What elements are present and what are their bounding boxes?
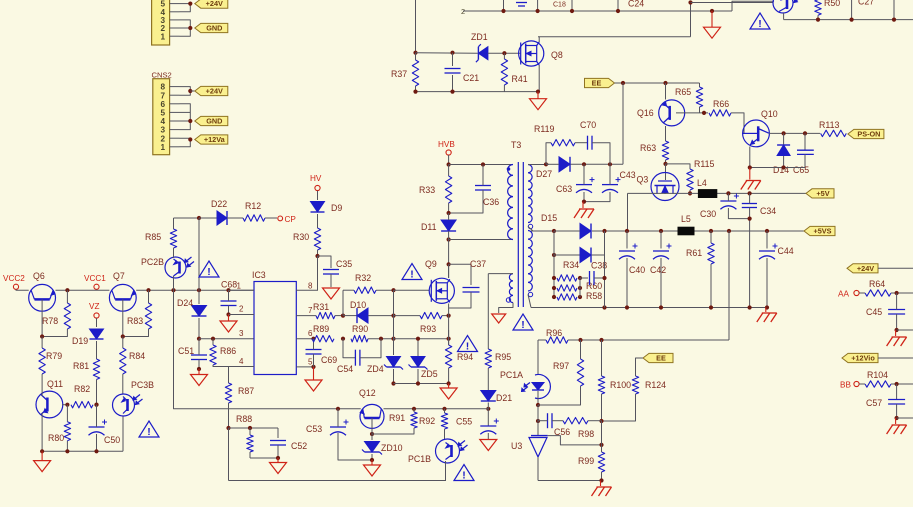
junction R97 top — [578, 338, 582, 342]
wire Q9 source to R93 — [448, 316, 450, 345]
label PC3B — [131, 380, 154, 390]
svg-text:D9: D9 — [331, 203, 342, 213]
svg-text:R50: R50 — [824, 0, 840, 8]
wire Q6 base down — [41, 311, 43, 337]
wire D19 to R81 — [96, 341, 98, 359]
label D11 — [421, 222, 437, 232]
wire R88 bottom row — [249, 452, 251, 458]
junction C21 bottom — [450, 90, 454, 94]
wire C57 stub 2 — [896, 404, 898, 418]
wire secondary top — [528, 164, 546, 166]
wire VCC1 stub — [96, 288, 98, 291]
zener ZD5 — [409, 357, 428, 370]
wire C30 top lead — [727, 193, 729, 201]
diode D14 — [777, 145, 790, 156]
label Q16 — [637, 108, 654, 118]
wire D11 top lead — [448, 213, 450, 220]
svg-text:PS-ON: PS-ON — [857, 130, 880, 139]
resistor R91 — [411, 409, 417, 428]
junction C42 top — [659, 229, 663, 233]
wire C35 down — [330, 274, 332, 287]
label C36 — [483, 197, 499, 207]
connector CNS1 pin 3 number — [160, 16, 165, 25]
svg-text:EE: EE — [656, 354, 666, 363]
svg-text:R98: R98 — [578, 429, 594, 439]
zener ZD4 — [384, 357, 403, 370]
wire Q10 collector — [769, 132, 820, 134]
wire ZD5 top — [417, 339, 419, 356]
svg-text:R89: R89 — [313, 324, 329, 334]
svg-text:C44: C44 — [778, 246, 794, 256]
svg-text:ZD4: ZD4 — [367, 364, 384, 374]
wire VCC2 — [16, 288, 29, 291]
wire R30 to pin8 — [317, 256, 319, 290]
junction D16 anode — [552, 253, 556, 257]
wire +24V right — [878, 267, 913, 269]
connector CNS1 pin 5 number — [160, 0, 165, 9]
connector CNS1 pin 4 number — [160, 8, 165, 17]
wire C40 up — [626, 231, 628, 249]
optocoupler PC2B — [165, 257, 194, 278]
label C38 — [591, 261, 607, 271]
label R92 — [419, 416, 435, 426]
pin number 2 — [239, 305, 244, 314]
junction Q3 gate node — [663, 162, 667, 166]
svg-text:R87: R87 — [238, 386, 254, 396]
resistor R98 — [563, 418, 588, 424]
label C42 — [650, 265, 666, 275]
junction R94 bottom — [447, 381, 451, 385]
capacitor C69 — [306, 350, 322, 355]
svg-text:D11: D11 — [421, 222, 437, 232]
junction R33/D11 — [447, 211, 451, 215]
svg-text:R104: R104 — [867, 370, 888, 380]
svg-text:R90: R90 — [352, 324, 368, 334]
svg-text:D14: D14 — [773, 165, 789, 175]
resistor R97 — [577, 359, 583, 386]
svg-text:8: 8 — [308, 282, 313, 291]
wire C56 lead left — [538, 420, 548, 422]
diode D9 — [311, 202, 325, 213]
label R97 — [553, 361, 569, 371]
polarity dot secondary tap — [528, 224, 532, 228]
svg-text:GND: GND — [206, 24, 222, 33]
ground C55 — [480, 440, 497, 451]
svg-text:R91: R91 — [389, 413, 405, 423]
wire D11 to primary bottom — [449, 239, 513, 241]
junction D22 anode row — [197, 216, 201, 220]
net flag EE — [585, 78, 615, 87]
ground pin2 — [220, 315, 237, 333]
label Q8 — [551, 50, 563, 60]
svg-text:C70: C70 — [580, 120, 596, 130]
junction rect node — [602, 229, 606, 233]
junction C45 bottom — [895, 328, 899, 332]
junction R50 — [816, 18, 820, 22]
net flag EE 2 — [643, 353, 673, 362]
connector CNS2 pin 1 number — [160, 143, 165, 152]
svg-text:D21: D21 — [496, 393, 512, 403]
junction top bus x503 — [501, 9, 505, 13]
transformer T3 secondary lower — [528, 231, 532, 292]
junction rail x767 — [765, 305, 769, 309]
wire D14 top lead — [783, 133, 785, 144]
svg-text:R92: R92 — [419, 416, 435, 426]
diode D27 — [559, 157, 570, 172]
wire D24 to pin3 — [198, 318, 200, 339]
resistor R58 — [557, 294, 577, 300]
wire Q12 base down — [371, 428, 373, 440]
wire PC3B emitter rail — [122, 416, 124, 451]
resistor R88 — [247, 428, 253, 452]
svg-text:R83: R83 — [127, 316, 143, 326]
optocoupler PC3B — [113, 394, 143, 416]
label Q6 — [33, 271, 45, 281]
svg-text:R100: R100 — [610, 380, 631, 390]
junction x394 pin7row — [391, 314, 395, 318]
wire R97 bottom — [538, 386, 581, 405]
wire R30 down — [317, 250, 319, 256]
pin number 5 — [308, 358, 313, 367]
label OCP — [285, 215, 297, 224]
junction x394 pin6row — [391, 337, 395, 341]
junction C21 top — [450, 51, 454, 55]
connector CNS2 pin 4 stub — [170, 120, 180, 122]
wire C69 down — [313, 354, 315, 367]
ground left rail — [34, 451, 51, 471]
capacitor C53 — [330, 420, 349, 436]
wire D10 to x394 — [368, 315, 394, 317]
wire R119 to C70 — [575, 142, 588, 144]
net flag +24V (CNS1) — [195, 0, 228, 8]
wire aux bottom to gnd — [499, 303, 513, 313]
label HVB — [438, 140, 455, 149]
wire C30 bottom — [728, 208, 749, 219]
label R96 — [546, 328, 562, 338]
svg-text:Q9: Q9 — [425, 259, 437, 269]
warning triangle near R94 — [458, 336, 478, 353]
wire stub up x618 — [617, 0, 619, 11]
wire zener rail — [394, 383, 449, 385]
svg-text:C36: C36 — [483, 197, 499, 207]
wire stub up x572 — [571, 0, 573, 11]
svg-text:D10: D10 — [350, 300, 366, 310]
ground top right — [704, 11, 721, 38]
net flag PS-ON — [848, 129, 884, 138]
wire stub up x537 — [537, 0, 539, 11]
svg-text:Q8: Q8 — [551, 50, 563, 60]
label Q11 — [47, 379, 63, 389]
capacitor C70 — [588, 136, 593, 150]
capacitor C42 — [653, 244, 672, 260]
capacitor C50 — [89, 420, 108, 436]
wire D10 lead — [343, 315, 357, 317]
wire PC2A emitter — [783, 13, 785, 20]
wire right stub — [893, 0, 895, 20]
connector CNS1 pin 3 stub — [170, 19, 180, 21]
label C65 — [793, 165, 809, 175]
resistor R50 — [815, 0, 821, 20]
junction C30/C34 bottom — [748, 217, 752, 221]
svg-text:R124: R124 — [645, 380, 666, 390]
label R37 — [391, 69, 407, 79]
label R60 — [586, 281, 602, 291]
ground Q8 source — [530, 92, 547, 110]
junction x894 — [892, 18, 896, 22]
capacitor C57 — [888, 400, 905, 405]
wire C34 top lead — [749, 193, 751, 203]
connector CNS2 pin 3 number — [160, 126, 165, 135]
label C51 — [178, 346, 194, 356]
wire R85 top row — [174, 217, 215, 219]
wire C45 stub 2 — [896, 314, 898, 330]
transistor Q10 — [743, 120, 770, 147]
junction gnd rail 2 — [65, 449, 69, 453]
wire Q9 source down — [448, 304, 450, 316]
junction bank TL — [552, 276, 556, 280]
junction Q9 gate node — [391, 288, 395, 292]
svg-text:!: ! — [466, 340, 470, 352]
label Q7 — [113, 271, 125, 281]
transistor Q6 — [29, 284, 56, 311]
svg-text:R95: R95 — [495, 352, 511, 362]
junction R82 right — [94, 403, 98, 407]
label R63 — [640, 143, 656, 153]
junction C51 bottom — [197, 367, 201, 371]
label R88 — [236, 414, 252, 424]
svg-text:EE: EE — [592, 79, 602, 88]
svg-text:CP: CP — [285, 215, 297, 224]
wire CNS1 pins 5-4 join — [180, 3, 191, 5]
label PC1B — [408, 454, 431, 464]
resistor R41 — [501, 53, 507, 91]
resistor R80 — [64, 405, 70, 451]
connector CNS2 pin 7 stub — [170, 94, 180, 96]
junction Q7 base node — [121, 334, 125, 338]
wire aux drop — [487, 274, 489, 349]
label C43 — [620, 170, 636, 180]
label R58 — [586, 291, 602, 301]
resistor R79 — [39, 337, 45, 375]
junction C38 right — [602, 276, 606, 280]
svg-text:R58: R58 — [586, 291, 602, 301]
label AA — [838, 290, 849, 299]
wire rail Q7-PC2B — [136, 289, 254, 291]
label D24 — [177, 298, 193, 308]
diode D19 — [90, 329, 104, 339]
chassis ground U3 — [592, 481, 612, 497]
svg-text:C37: C37 — [470, 259, 486, 269]
label R87 — [238, 386, 254, 396]
wire stub up x503 — [503, 0, 505, 11]
wire C63 down — [583, 192, 585, 202]
connector CNS2 pin 8 stub — [170, 86, 180, 88]
junction HVB node — [447, 162, 451, 166]
wire R31 to D10 — [335, 315, 343, 317]
wire C69 top lead — [313, 339, 315, 350]
connector CNS1 pin 1 number — [160, 32, 165, 41]
junction Q9 source node — [447, 314, 451, 318]
ground ZD10 — [364, 460, 381, 476]
wire Q3 gate — [665, 164, 667, 180]
capacitor C43 — [602, 177, 621, 193]
polarity dot secondary bottom — [528, 292, 532, 296]
svg-text:D24: D24 — [177, 298, 193, 308]
wire Q16 emitter down — [665, 126, 667, 141]
wire D16 lead left — [554, 254, 580, 256]
wire C44 down — [766, 258, 768, 308]
wire top bus corner up — [732, 1, 774, 11]
wire C52 bottom lead — [277, 445, 279, 458]
svg-text:2: 2 — [239, 305, 244, 314]
svg-text:!: ! — [462, 469, 466, 481]
shunt regulator U3 — [529, 436, 548, 457]
wire CNS2 pin4 — [180, 120, 191, 122]
pin number 7 — [308, 306, 313, 315]
resistor R82 — [71, 402, 93, 408]
resistor R85 — [170, 218, 176, 248]
wire R88 chain down — [228, 428, 230, 481]
junction R37 bottom — [413, 90, 417, 94]
label D15 — [541, 213, 557, 223]
svg-text:R33: R33 — [419, 185, 435, 195]
wire Q11 emitter — [41, 413, 43, 451]
wire C52 drop — [277, 428, 279, 438]
label Q10 — [761, 109, 778, 119]
junction C63 top — [582, 162, 586, 166]
wire R90 to x394 — [368, 338, 394, 340]
label PC1A — [500, 370, 523, 380]
junction node421 left — [536, 419, 540, 423]
svg-text:!: ! — [147, 426, 151, 438]
svg-text:C40: C40 — [629, 265, 645, 275]
wire R97 drop — [580, 340, 582, 359]
junction rail x711 — [709, 305, 713, 309]
junction pin6row x448 — [447, 337, 451, 341]
svg-text:C24: C24 — [628, 0, 644, 9]
junction C65 top — [803, 131, 807, 135]
mosfet Q3 — [651, 173, 679, 201]
pin number 6 — [308, 329, 313, 338]
label D22 — [211, 199, 227, 209]
label VCC1 — [84, 274, 106, 283]
svg-text:C35: C35 — [336, 259, 352, 269]
svg-text:PC3B: PC3B — [131, 380, 154, 390]
warning triangle near D22 — [199, 261, 219, 278]
wire C43 up — [609, 164, 611, 184]
label R115 — [694, 159, 714, 169]
wire R88-C52 bottom — [250, 457, 278, 459]
svg-text:D15: D15 — [541, 213, 557, 223]
label R84 — [129, 351, 145, 361]
wire CNS1 pin2 — [180, 27, 191, 29]
net flag +5VS — [804, 226, 835, 235]
wire C36 bottom — [449, 190, 483, 213]
diode D11 — [441, 220, 456, 231]
svg-text:R41: R41 — [512, 74, 528, 84]
wire R100 bottom — [601, 394, 603, 421]
junction R83 top — [146, 288, 150, 292]
wire C21 down — [452, 75, 454, 92]
svg-text:R34: R34 — [563, 260, 579, 270]
capacitor C68 — [221, 301, 237, 306]
label L4 — [697, 178, 707, 188]
zener ZD10 — [362, 442, 382, 455]
wire R94 bottom — [448, 368, 450, 384]
label R119 — [534, 124, 554, 134]
label IC3 — [252, 270, 266, 280]
capacitor C37 — [463, 288, 480, 293]
wire U3 top — [537, 421, 539, 436]
wire D11 node down — [448, 231, 450, 278]
wire ZD1 to gate — [488, 52, 520, 54]
wire C63 up — [583, 164, 585, 184]
svg-text:D27: D27 — [536, 169, 552, 179]
warning triangle above Q9 — [402, 264, 422, 281]
label ZD1 — [471, 32, 488, 42]
label Q3 — [637, 175, 649, 185]
junction C52 bottom — [276, 456, 280, 460]
node VCC2 — [13, 284, 18, 289]
svg-text:R84: R84 — [129, 351, 145, 361]
wire control rail 3 — [384, 408, 489, 410]
pin number 3 — [239, 329, 244, 338]
wire gate row — [416, 52, 478, 55]
label C53 — [306, 424, 322, 434]
wire R32 drop — [342, 290, 344, 315]
svg-text:HVB: HVB — [438, 140, 455, 149]
wire pin4 — [229, 367, 255, 383]
wire pin7 — [296, 315, 316, 317]
ground pin5 — [305, 367, 322, 391]
label R86 — [220, 346, 236, 356]
svg-text:R113: R113 — [819, 120, 839, 130]
junction C63/C43 bottom — [582, 200, 586, 204]
wire BB to R104 — [859, 383, 865, 385]
label R93 — [420, 324, 436, 334]
resistor R32 — [343, 287, 393, 293]
label HV — [310, 174, 322, 183]
warning triangle near PC1B — [454, 465, 474, 482]
wire Q16 collector up — [665, 83, 667, 100]
label C34 — [760, 206, 776, 216]
label C63 — [556, 184, 572, 194]
wire PC1A bottom — [537, 391, 539, 405]
wire snubber right — [592, 143, 610, 165]
wire ZD5 bottom — [417, 369, 419, 384]
net flag +5V — [806, 189, 834, 198]
junction R88 node — [226, 426, 230, 430]
label R99 — [578, 456, 594, 466]
chassis ground C63 — [574, 202, 594, 218]
transistor Q7 — [109, 284, 136, 311]
connector CNS2 pin 2 number — [160, 134, 165, 143]
label R32 — [355, 273, 371, 283]
label C30 — [700, 209, 716, 219]
junction R88 top — [248, 426, 252, 430]
wire R99 lead — [601, 445, 603, 452]
wire R87 to R88 — [228, 403, 230, 428]
svg-text:!: ! — [410, 268, 414, 280]
wire Q11 base — [62, 404, 67, 406]
wire secondary bottom down — [528, 295, 531, 308]
svg-text:1: 1 — [237, 282, 242, 291]
svg-text:1: 1 — [160, 143, 165, 152]
wire PC1A top — [537, 340, 539, 374]
label C70 — [580, 120, 596, 130]
label Q9 — [425, 259, 437, 269]
svg-text:R97: R97 — [553, 361, 569, 371]
